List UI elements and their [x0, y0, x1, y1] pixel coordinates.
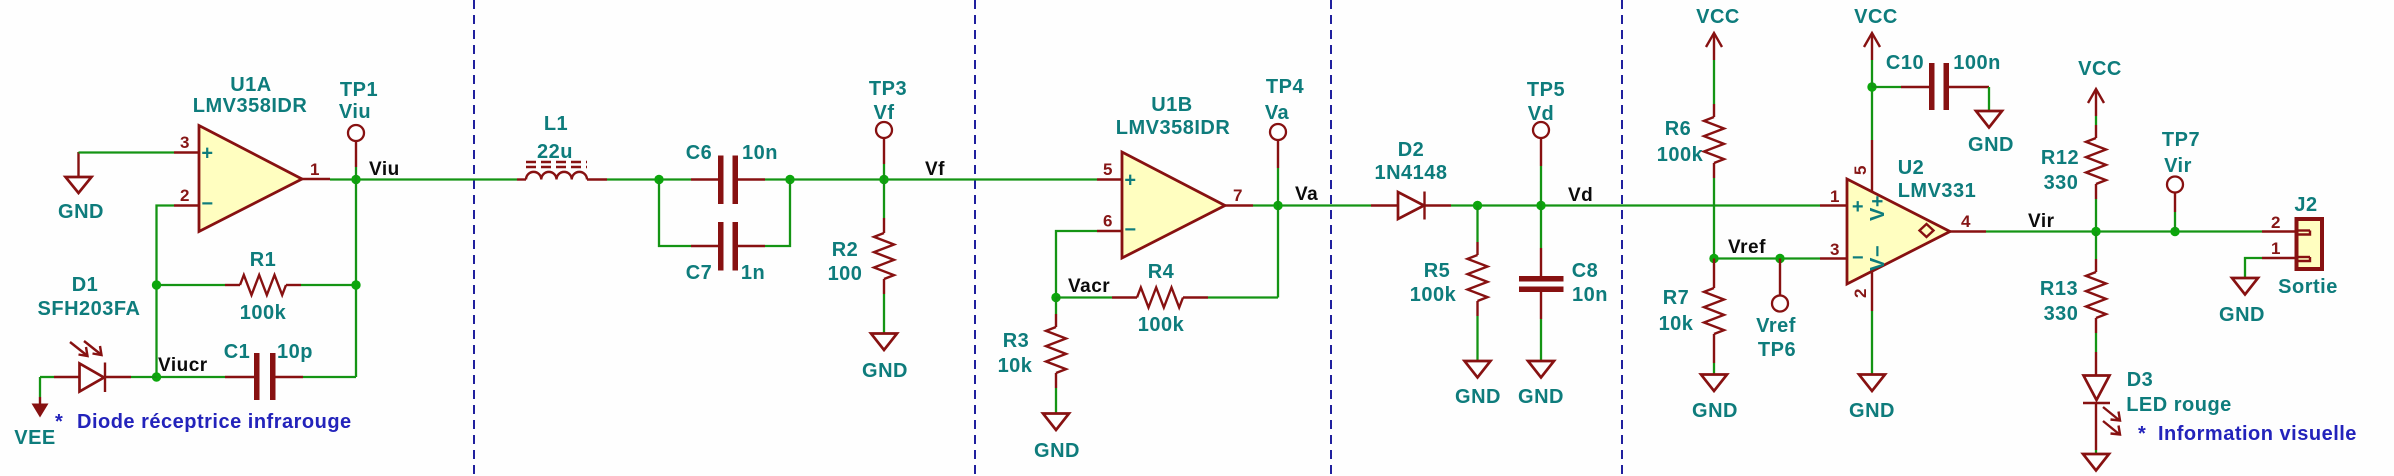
svg-text:R12: R12: [2041, 147, 2079, 169]
separator line 1: [473, 0, 475, 476]
svg-text:100k: 100k: [1410, 284, 1457, 306]
ground GND C10: [1968, 111, 2014, 156]
node junction R5: [1473, 201, 1482, 210]
svg-text:C6: C6: [686, 142, 713, 164]
ground GND R7: [1692, 375, 1738, 423]
node junction Viu: [351, 175, 360, 184]
svg-text:GND: GND: [1692, 400, 1738, 422]
svg-text:VCC: VCC: [1696, 6, 1740, 28]
node junction Vf: [879, 175, 888, 184]
capacitor C7: [686, 222, 765, 284]
svg-text:Vir: Vir: [2164, 155, 2192, 177]
ground GND R3: [1034, 414, 1080, 463]
svg-text:VEE: VEE: [14, 427, 56, 449]
svg-text:10k: 10k: [998, 355, 1033, 377]
svg-text:GND: GND: [1455, 386, 1501, 408]
node junction Va: [1273, 201, 1282, 210]
wire U2 pin2 down: [1871, 311, 1873, 375]
separator line 3: [1330, 0, 1332, 476]
op-amp U1B: [1097, 152, 1253, 258]
svg-text:3: 3: [1830, 240, 1840, 259]
svg-text:Vref: Vref: [1728, 237, 1766, 258]
wire J2 pin1 to GND: [2245, 258, 2262, 278]
svg-text:3: 3: [180, 133, 190, 152]
svg-text:Viucr: Viucr: [158, 355, 208, 376]
power VCC R12: [2078, 58, 2122, 125]
resistor R2: [828, 180, 894, 334]
svg-text:GND: GND: [58, 201, 104, 223]
svg-text:10n: 10n: [742, 142, 778, 164]
svg-text:100: 100: [828, 263, 863, 285]
svg-text:D2: D2: [1398, 139, 1425, 161]
svg-text:GND: GND: [1034, 440, 1080, 462]
svg-text:330: 330: [2044, 303, 2079, 325]
wire U1A pin2 stub: [157, 206, 175, 286]
svg-text:100k: 100k: [240, 302, 287, 324]
svg-text:R7: R7: [1663, 287, 1690, 309]
resistor R4: [1056, 261, 1278, 336]
capacitor C1: [157, 341, 357, 400]
svg-text:4: 4: [1961, 212, 1971, 231]
LED D3: [2083, 352, 2232, 454]
svg-text:6: 6: [1103, 212, 1113, 231]
wire U2 pin5 to VCC node: [1871, 87, 1873, 140]
svg-text:10n: 10n: [1572, 284, 1608, 306]
svg-text:1: 1: [310, 160, 320, 179]
resistor R6: [1657, 104, 1724, 259]
svg-text:U2: U2: [1898, 157, 1925, 179]
wire U1A output to L1: [330, 178, 517, 180]
svg-text:Viu: Viu: [339, 101, 371, 123]
power VCC R6: [1696, 6, 1740, 104]
svg-text:TP5: TP5: [1527, 79, 1565, 101]
svg-text:LMV358IDR: LMV358IDR: [193, 95, 308, 117]
node junction Vir TP7: [2170, 227, 2179, 236]
svg-text:100k: 100k: [1657, 144, 1704, 166]
svg-text:R1: R1: [250, 249, 277, 271]
svg-text:R2: R2: [832, 239, 859, 261]
svg-text:10p: 10p: [277, 341, 313, 363]
svg-text:GND: GND: [862, 360, 908, 382]
test point TP5: [1527, 79, 1565, 206]
svg-text:D1: D1: [72, 274, 99, 296]
svg-text:2: 2: [180, 186, 190, 205]
wire GND1 to U1A pin3: [79, 151, 175, 153]
svg-text:100n: 100n: [1953, 52, 2001, 74]
svg-text:C7: C7: [686, 262, 713, 284]
wire C7 branch left: [659, 180, 691, 247]
svg-text:−: −: [201, 193, 213, 215]
svg-text:Vir: Vir: [2028, 211, 2055, 232]
test point TP6: [1756, 259, 1796, 362]
wire L1 to C6: [607, 178, 691, 180]
svg-text:Va: Va: [1265, 102, 1290, 124]
svg-text:U1B: U1B: [1151, 94, 1193, 116]
ground GND1 top-left: [58, 152, 104, 223]
resistor R12: [2041, 125, 2106, 232]
svg-text:1: 1: [1830, 187, 1840, 206]
svg-text:1N4148: 1N4148: [1374, 162, 1447, 184]
svg-text:Vd: Vd: [1568, 185, 1593, 206]
svg-text:Diode réceptrice infrarouge: Diode réceptrice infrarouge: [77, 411, 352, 433]
svg-text:5: 5: [1851, 165, 1870, 175]
ground GND J2: [2219, 278, 2265, 326]
svg-text:−: −: [1124, 219, 1136, 241]
svg-text:Information visuelle: Information visuelle: [2158, 423, 2357, 445]
resistor R1: [157, 249, 357, 324]
svg-text:Vd: Vd: [1528, 103, 1555, 125]
svg-text:TP1: TP1: [340, 79, 378, 101]
svg-text:2: 2: [2271, 213, 2281, 232]
inductor L1: [517, 113, 607, 180]
wire output column down: [355, 180, 357, 378]
svg-text:330: 330: [2044, 172, 2079, 194]
node junction Vref left: [1709, 254, 1718, 263]
svg-text:+: +: [1124, 170, 1136, 192]
photodiode D1: [40, 341, 157, 392]
node junction Vir R12: [2091, 227, 2100, 236]
svg-text:10k: 10k: [1659, 313, 1694, 335]
capacitor C10: [1872, 52, 2001, 111]
svg-text:Vref: Vref: [1756, 315, 1796, 337]
svg-text:+: +: [201, 143, 213, 165]
svg-text:R4: R4: [1148, 261, 1175, 283]
svg-text:−: −: [1852, 247, 1864, 269]
svg-text:SFH203FA: SFH203FA: [38, 298, 141, 320]
svg-text:GND: GND: [1849, 400, 1895, 422]
node junction VCC C10: [1867, 82, 1876, 91]
separator line 2: [974, 0, 976, 476]
test point TP3: [869, 78, 907, 180]
svg-text:TP7: TP7: [2162, 129, 2200, 151]
wire D2 to U2 pin1: [1451, 204, 1820, 206]
resistor R13: [2040, 232, 2106, 353]
resistor R7: [1659, 259, 1724, 375]
svg-text:R3: R3: [1003, 330, 1030, 352]
separator line 4: [1621, 0, 1623, 476]
svg-text:LED rouge: LED rouge: [2126, 394, 2232, 416]
node junction C6 left: [654, 175, 663, 184]
svg-text:TP6: TP6: [1758, 339, 1796, 361]
ground GND D3: [2083, 454, 2109, 471]
power VCC U2: [1854, 6, 1898, 87]
svg-text:Vf: Vf: [874, 102, 895, 124]
svg-text:7: 7: [1233, 186, 1243, 205]
svg-text:GND: GND: [1968, 134, 2014, 156]
node junction R1 right: [351, 280, 360, 289]
test point TP7: [2162, 129, 2200, 232]
svg-text:2: 2: [1851, 288, 1870, 298]
svg-text:GND: GND: [1518, 386, 1564, 408]
node junction Viucr: [152, 372, 161, 381]
svg-text:C8: C8: [1572, 260, 1599, 282]
ground GND R5: [1455, 361, 1501, 408]
capacitor C6: [686, 142, 778, 204]
svg-text:U1A: U1A: [230, 74, 272, 96]
svg-text:R6: R6: [1665, 118, 1692, 140]
wire R4 feedback up: [1277, 206, 1279, 298]
svg-text:*: *: [55, 411, 63, 433]
test point TP1: [339, 79, 378, 180]
diode D2 1N4148: [1371, 139, 1451, 220]
svg-text:J2: J2: [2294, 194, 2317, 216]
wire C6 right: [765, 178, 1097, 180]
wire Vref: [1714, 257, 1820, 259]
ground GND U2: [1849, 375, 1895, 423]
svg-text:Vf: Vf: [925, 159, 945, 180]
svg-text:VCC: VCC: [1854, 6, 1898, 28]
svg-text:*: *: [2138, 423, 2146, 445]
svg-text:5: 5: [1103, 160, 1113, 179]
resistor R3: [998, 298, 1066, 414]
connector J2: [2262, 194, 2338, 298]
svg-text:V−: V−: [1867, 245, 1889, 271]
svg-text:TP3: TP3: [869, 78, 907, 100]
svg-text:Viu: Viu: [369, 159, 400, 180]
svg-text:Sortie: Sortie: [2278, 276, 2338, 298]
node junction R1 left: [152, 280, 161, 289]
comparator U2 LMV331: [1820, 140, 1986, 311]
svg-text:LMV331: LMV331: [1898, 180, 1977, 202]
test point TP4: [1265, 76, 1305, 206]
resistor R5: [1410, 206, 1488, 362]
ground GND C8: [1518, 361, 1564, 408]
wire U1B pin6 to Vacr column: [1056, 231, 1097, 298]
node junction Vacr: [1051, 293, 1060, 302]
op-amp U1A: [174, 126, 330, 232]
svg-text:1n: 1n: [741, 262, 765, 284]
svg-text:VCC: VCC: [2078, 58, 2122, 80]
svg-text:Va: Va: [1295, 184, 1318, 205]
svg-text:1: 1: [2271, 239, 2281, 258]
wire U2 output to J2: [1986, 230, 2262, 232]
svg-text:R13: R13: [2040, 278, 2078, 300]
svg-text:R5: R5: [1424, 260, 1451, 282]
svg-text:GND: GND: [2219, 304, 2265, 326]
svg-text:D3: D3: [2127, 369, 2154, 391]
wire C7 branch right: [765, 180, 790, 247]
svg-text:+: +: [1852, 196, 1864, 218]
svg-text:22u: 22u: [537, 141, 573, 163]
wire inverting column down: [155, 285, 157, 377]
svg-text:C10: C10: [1886, 52, 1924, 74]
svg-text:TP4: TP4: [1266, 76, 1305, 98]
svg-text:Vacr: Vacr: [1068, 276, 1110, 297]
svg-text:LMV358IDR: LMV358IDR: [1116, 117, 1231, 139]
wire U1B output: [1253, 204, 1371, 206]
node junction Vref TP6: [1775, 254, 1784, 263]
capacitor C8: [1519, 206, 1608, 362]
node junction C6 right: [785, 175, 794, 184]
ground GND R2: [862, 334, 908, 383]
power VEE: [14, 377, 56, 449]
svg-text:C1: C1: [224, 341, 251, 363]
svg-text:L1: L1: [544, 113, 568, 135]
node junction Vd: [1536, 201, 1545, 210]
svg-text:100k: 100k: [1138, 314, 1185, 336]
svg-text:V+: V+: [1867, 195, 1889, 221]
